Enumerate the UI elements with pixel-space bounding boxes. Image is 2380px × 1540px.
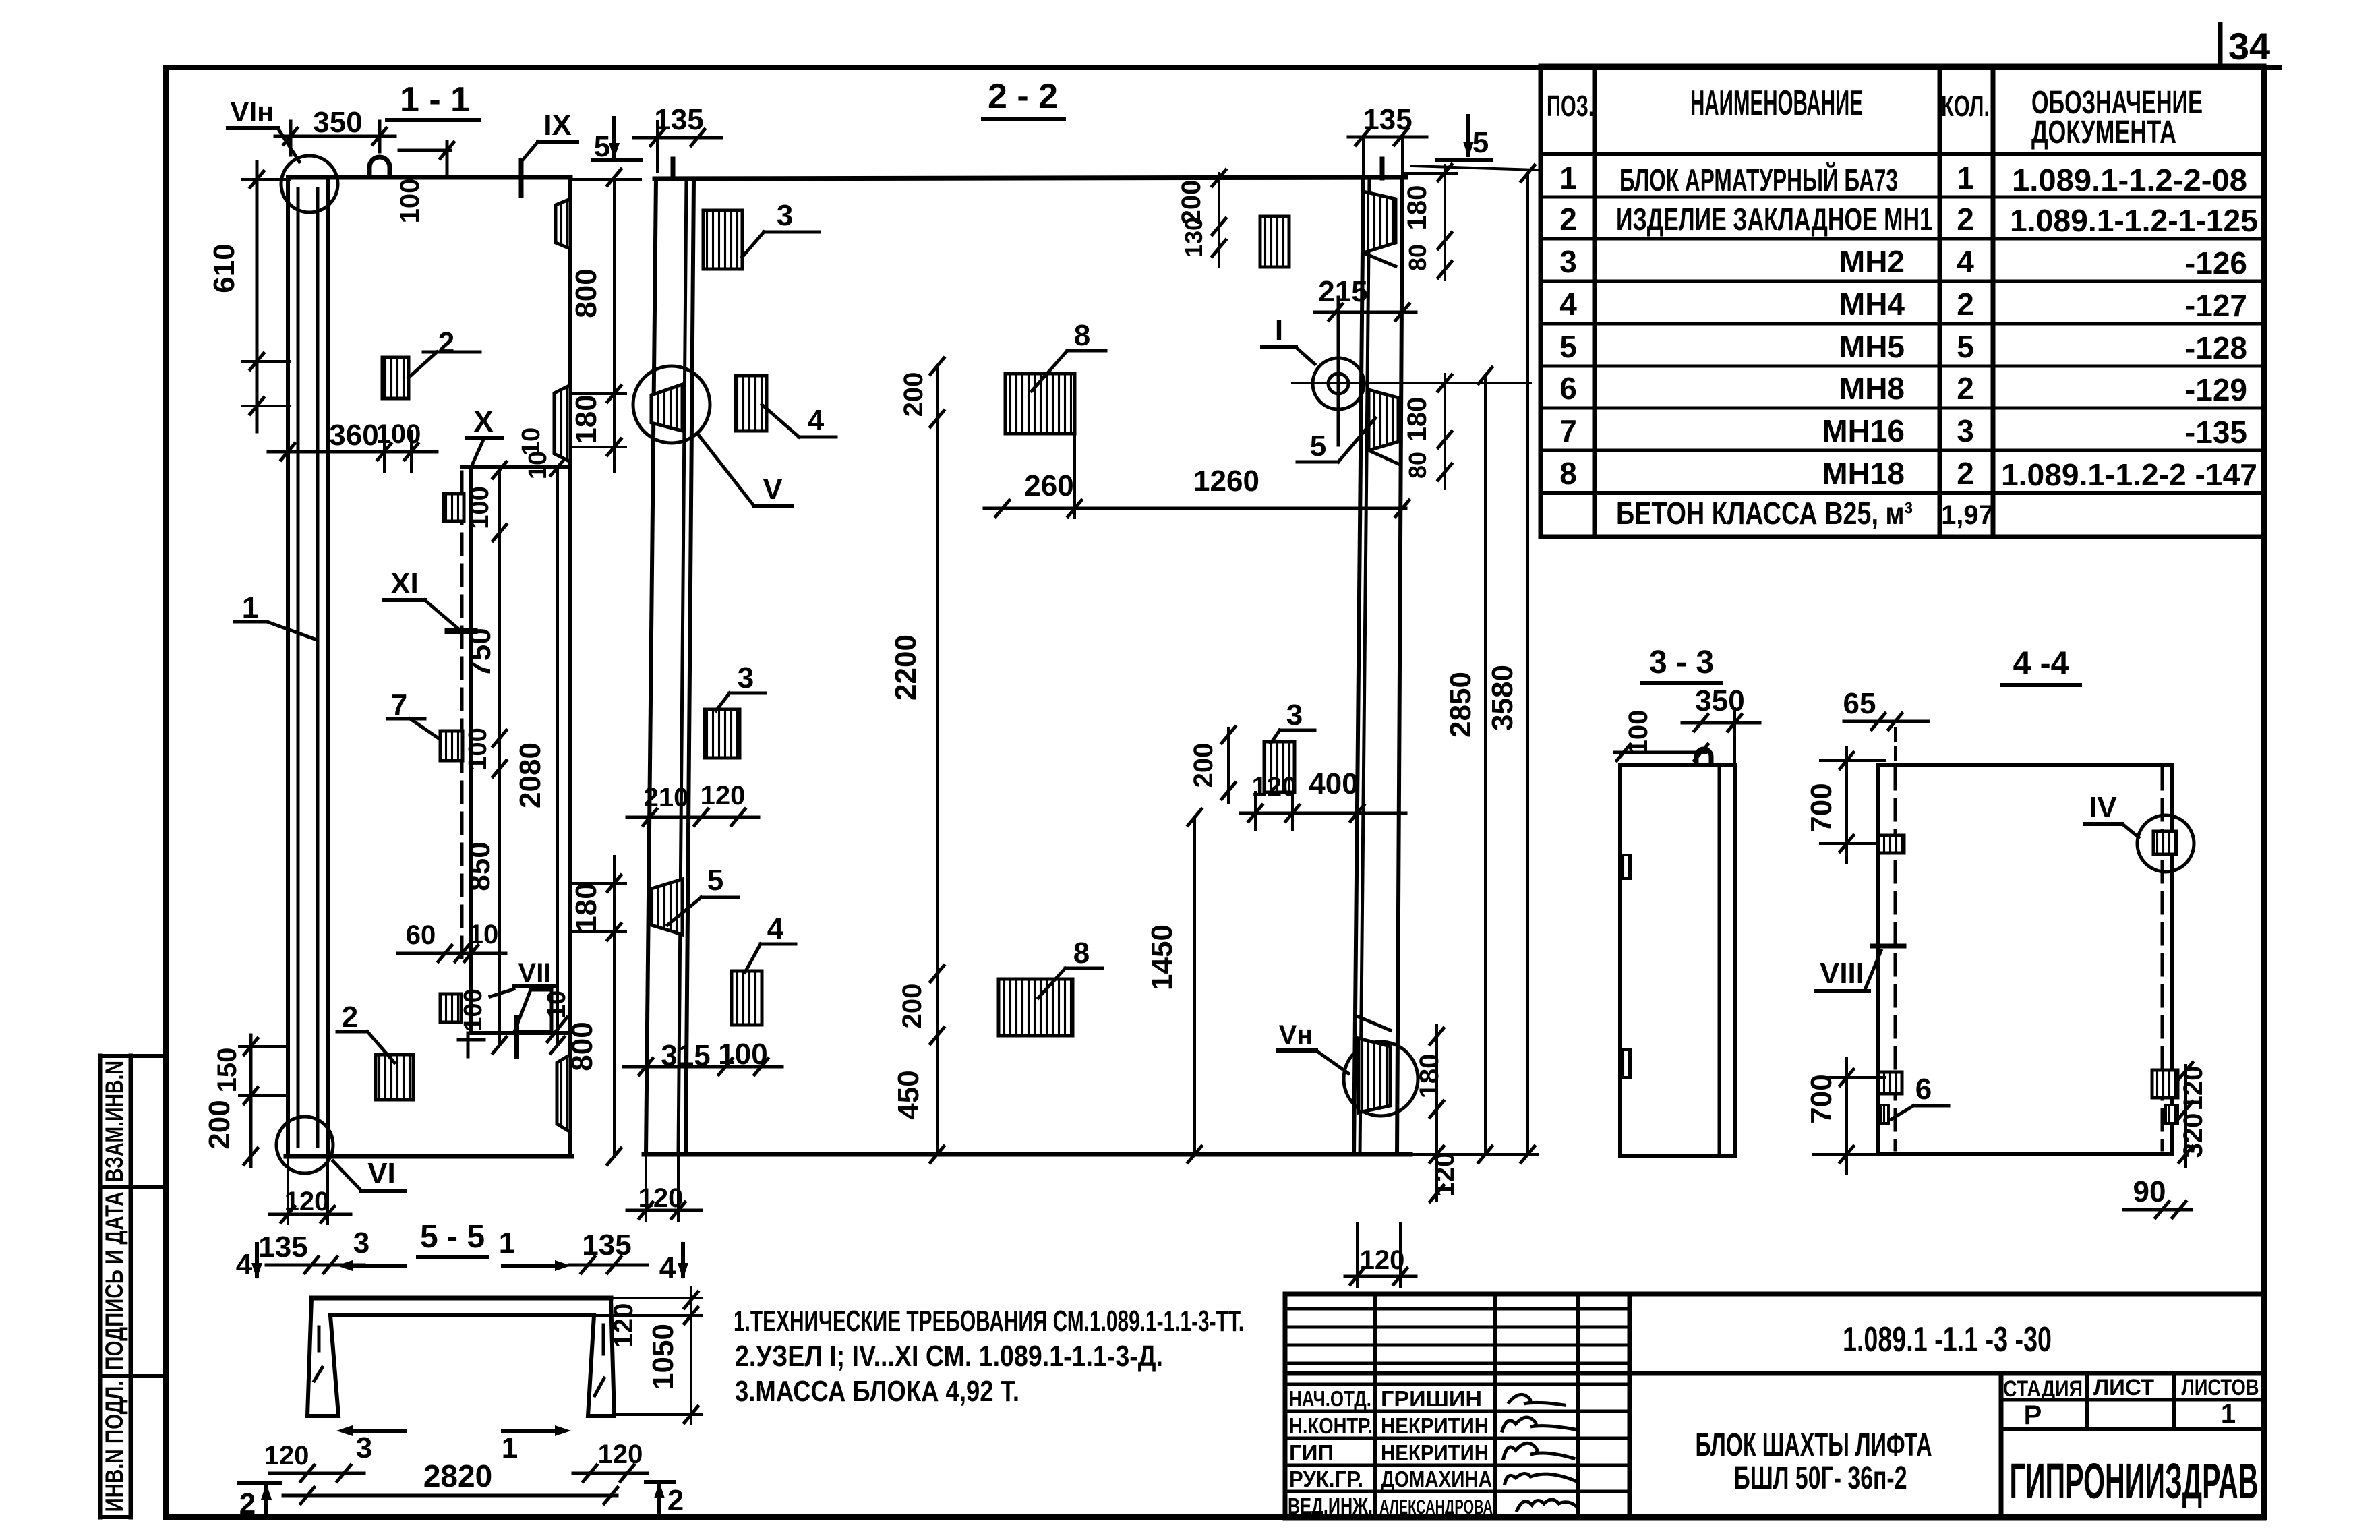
svg-text:350: 350 <box>313 106 362 139</box>
svg-text:210: 210 <box>644 783 689 812</box>
svg-text:1: 1 <box>242 591 258 624</box>
svg-text:БЕТОН КЛАССА В25, м³: БЕТОН КЛАССА В25, м³ <box>1616 496 1913 531</box>
detail circle VI <box>276 1117 333 1173</box>
label XI <box>390 567 419 600</box>
svg-text:3: 3 <box>356 1431 372 1464</box>
svg-text:34: 34 <box>2228 25 2270 67</box>
svg-text:2: 2 <box>239 1487 256 1520</box>
page number tick <box>2218 24 2223 67</box>
dashed lines 4-4 <box>1894 769 1897 1150</box>
svg-text:СТАДИЯ: СТАДИЯ <box>2003 1376 2083 1402</box>
svg-text:1450: 1450 <box>1146 924 1179 990</box>
dim 120 bottom left wall <box>638 1183 684 1213</box>
plates on left dashed line <box>1878 835 1904 853</box>
svg-text:ГИПРОНИИЗДРАВ: ГИПРОНИИЗДРАВ <box>2010 1453 2259 1509</box>
svg-text:100: 100 <box>395 179 425 224</box>
svg-text:1: 1 <box>1957 160 1974 196</box>
dim 200 near plate 3 lower right <box>1189 743 1218 788</box>
svg-text:3: 3 <box>738 661 754 694</box>
dims 315 100 bottom left <box>661 1038 767 1072</box>
svg-text:АЛЕКСАНДРОВА: АЛЕКСАНДРОВА <box>1379 1496 1493 1518</box>
svg-text:180: 180 <box>570 883 603 932</box>
svg-text:100: 100 <box>464 728 492 770</box>
dim 135 top right <box>1363 103 1412 136</box>
cavity left wall <box>469 467 473 1033</box>
svg-text:6: 6 <box>1559 371 1577 406</box>
svg-text:2.УЗЕЛ I; IV...XI СМ. 1.089.1-: 2.УЗЕЛ I; IV...XI СМ. 1.089.1-1.1-3-Д. <box>735 1340 1163 1373</box>
small plate near cavity bottom <box>440 994 461 1022</box>
svg-text:700: 700 <box>1805 1074 1838 1123</box>
svg-text:5 - 5: 5 - 5 <box>420 1219 485 1255</box>
svg-text:1260: 1260 <box>1193 465 1259 498</box>
svg-text:4: 4 <box>1957 244 1974 279</box>
label VIII <box>1820 957 1864 990</box>
svg-text:VIн: VIн <box>230 96 274 127</box>
svg-text:610: 610 <box>208 243 241 293</box>
plate 8 upper + label <box>1005 374 1075 434</box>
svg-text:4: 4 <box>659 1251 676 1284</box>
label VII + threshold <box>518 958 552 988</box>
dim 1450 <box>1146 924 1179 990</box>
svg-text:2: 2 <box>1957 202 1974 237</box>
dim 65 <box>1843 687 1876 720</box>
section mark 5 down <box>594 130 610 163</box>
svg-text:180: 180 <box>1402 397 1432 442</box>
svg-text:2850: 2850 <box>1444 672 1477 738</box>
label X <box>473 405 493 438</box>
dim 450 lower <box>892 1070 925 1119</box>
svg-text:VIII: VIII <box>1820 957 1864 990</box>
svg-text:2: 2 <box>438 326 454 359</box>
svg-text:XI: XI <box>390 567 419 600</box>
cut arrows 3 and 1 top <box>353 1264 405 1268</box>
dim 150 200 left bottom <box>249 1035 253 1166</box>
svg-text:МН16: МН16 <box>1822 413 1905 448</box>
svg-text:100: 100 <box>466 486 494 529</box>
svg-text:IX: IX <box>543 109 572 142</box>
svg-text:Vн: Vн <box>1279 1020 1313 1050</box>
section 4-4 view <box>1805 646 2208 1218</box>
svg-text:10: 10 <box>469 920 499 949</box>
plate 3 top left + label <box>703 210 742 269</box>
svg-text:65: 65 <box>1843 687 1876 720</box>
channel top flange <box>311 1296 611 1301</box>
svg-text:80: 80 <box>1404 452 1431 479</box>
label V <box>763 473 783 506</box>
svg-text:1: 1 <box>2221 1399 2236 1429</box>
left wall inner line <box>326 177 330 1156</box>
dim 90 <box>2133 1175 2166 1208</box>
svg-text:МН18: МН18 <box>1822 456 1905 491</box>
svg-text:8: 8 <box>1073 937 1090 970</box>
section title 2-2 <box>988 77 1058 116</box>
section 1-1 view <box>203 80 641 1224</box>
svg-text:5: 5 <box>707 864 723 897</box>
svg-text:-126: -126 <box>2185 245 2247 280</box>
svg-text:100: 100 <box>376 419 421 449</box>
svg-text:Н.КОНТР.: Н.КОНТР. <box>1289 1413 1373 1438</box>
svg-text:80: 80 <box>1404 244 1431 271</box>
right wall inner pair <box>1354 177 1363 1154</box>
svg-text:6: 6 <box>1915 1073 1932 1106</box>
svg-text:10: 10 <box>524 451 552 479</box>
svg-text:1.089.1-1.2-1-125: 1.089.1-1.2-1-125 <box>2010 203 2258 238</box>
bottom line <box>644 1152 1410 1157</box>
svg-text:200: 200 <box>897 984 927 1029</box>
cavity bottom <box>471 1031 570 1035</box>
dims 260 1260 <box>1024 465 1259 502</box>
svg-text:200: 200 <box>203 1100 236 1149</box>
svg-text:5: 5 <box>594 130 610 163</box>
svg-text:180: 180 <box>1415 1054 1444 1099</box>
loop end view right <box>1380 159 1385 178</box>
svg-text:120: 120 <box>598 1440 643 1469</box>
svg-text:МН4: МН4 <box>1839 287 1905 322</box>
label IX <box>543 109 572 142</box>
edge marks 3-3 <box>1620 855 1630 879</box>
svg-text:1.089.1-1.2-2-08: 1.089.1-1.2-2-08 <box>2012 162 2247 198</box>
svg-text:НЕКРИТИН: НЕКРИТИН <box>1381 1440 1489 1465</box>
panel bottom line <box>286 1154 572 1159</box>
chain dims 100 750 100 850 <box>463 486 497 891</box>
dim 120 bottom <box>285 1187 330 1216</box>
svg-text:360: 360 <box>329 419 378 452</box>
section title 1-1 <box>400 80 470 119</box>
section 2-2 view <box>624 77 1537 1286</box>
bracket V on left wall <box>651 384 682 431</box>
technical notes <box>734 1305 1244 1408</box>
dims below: 120 3 1 120 <box>264 1431 643 1471</box>
svg-text:Р: Р <box>2024 1400 2042 1430</box>
dim 700 upper <box>1805 783 1838 832</box>
svg-text:2820: 2820 <box>423 1458 492 1493</box>
svg-text:2: 2 <box>1957 287 1974 322</box>
right wall outer <box>1397 177 1402 1154</box>
svg-text:1.089.1-1.2-2 -147: 1.089.1-1.2-2 -147 <box>2001 457 2257 492</box>
svg-text:5: 5 <box>1310 430 1326 463</box>
svg-text:ИНВ.N ПОДЛ.: ИНВ.N ПОДЛ. <box>100 1381 128 1512</box>
svg-text:3: 3 <box>1286 699 1303 732</box>
svg-text:120: 120 <box>609 1303 638 1349</box>
svg-text:320: 320 <box>2178 1113 2208 1158</box>
signatures <box>1502 1394 1576 1510</box>
svg-text:4 -4: 4 -4 <box>2013 646 2069 682</box>
label 6 <box>1915 1073 1932 1106</box>
svg-text:ВЕД.ИНЖ.: ВЕД.ИНЖ. <box>1288 1493 1373 1518</box>
svg-text:150: 150 <box>212 1048 242 1093</box>
svg-text:3: 3 <box>777 199 793 232</box>
detail circle V on left wall <box>633 366 710 443</box>
right bottom plates 4-4 <box>2152 1070 2178 1098</box>
svg-text:130: 130 <box>1180 217 1208 258</box>
svg-text:135: 135 <box>582 1228 631 1262</box>
svg-text:VII: VII <box>518 958 552 988</box>
section marks top: 4 135 3 1 135 4 <box>236 1226 676 1284</box>
svg-text:МН5: МН5 <box>1839 329 1905 364</box>
loop end view left <box>671 159 676 179</box>
svg-text:135: 135 <box>258 1231 307 1264</box>
dims 60 10 <box>406 920 499 950</box>
detail label VIн <box>230 96 274 127</box>
svg-text:ДОМАХИНА: ДОМАХИНА <box>1381 1467 1492 1491</box>
svg-text:ГИП: ГИП <box>1289 1440 1334 1465</box>
dims 80 180 right <box>1402 397 1432 479</box>
bracket 5 on left wall + label <box>651 879 682 935</box>
svg-text:НАЧ.ОТД.: НАЧ.ОТД. <box>1289 1386 1371 1411</box>
dim 2820 <box>423 1458 492 1493</box>
svg-text:КОЛ.: КОЛ. <box>1941 90 1990 123</box>
svg-text:МН8: МН8 <box>1839 371 1905 406</box>
svg-text:450: 450 <box>892 1070 925 1119</box>
plate 4 lower left + label <box>732 971 762 1025</box>
svg-text:7: 7 <box>391 688 407 721</box>
svg-text:2080: 2080 <box>514 742 547 808</box>
panel outline 3-3 <box>1620 765 1735 1156</box>
bracket top right <box>556 199 570 249</box>
svg-text:2200: 2200 <box>889 634 922 701</box>
right chain dims 800 180 / 180 800 <box>566 268 603 1071</box>
section marks 2 up <box>239 1484 684 1520</box>
dim 200 upper middle <box>899 372 928 417</box>
svg-text:4: 4 <box>1559 287 1577 322</box>
dims 180 120 bottom right <box>1415 1054 1460 1197</box>
svg-text:3: 3 <box>353 1226 369 1260</box>
svg-text:90: 90 <box>2133 1175 2166 1208</box>
detail circle VIн <box>281 156 338 212</box>
svg-text:1.089.1 -1.1 -3 -30: 1.089.1 -1.1 -3 -30 <box>1843 1320 2052 1359</box>
svg-text:ДОКУМЕНТА: ДОКУМЕНТА <box>2031 115 2176 150</box>
svg-text:VI: VI <box>367 1157 396 1190</box>
svg-text:2: 2 <box>1559 202 1577 237</box>
dim 200 lower <box>897 984 927 1029</box>
svg-text:60: 60 <box>406 920 436 950</box>
svg-text:V: V <box>763 473 783 506</box>
svg-text:НАИМЕНОВАНИЕ: НАИМЕНОВАНИЕ <box>1690 84 1863 123</box>
left wall outer line <box>286 177 290 1156</box>
svg-text:120: 120 <box>701 781 746 810</box>
plate 8 lower + label <box>999 979 1073 1036</box>
section mark 5 down right <box>1472 126 1489 159</box>
dim 2080 <box>514 742 547 808</box>
dims 210 120 <box>644 781 746 812</box>
svg-text:8: 8 <box>1559 456 1577 491</box>
small plate near cavity top <box>444 494 464 521</box>
dim 700 lower <box>1805 1074 1838 1123</box>
dim 100 <box>1624 710 1653 755</box>
lifting loop <box>369 157 390 177</box>
svg-text:850: 850 <box>463 841 496 891</box>
svg-text:3: 3 <box>1957 413 1974 448</box>
svg-text:БШЛ 50Г- 36п-2: БШЛ 50Г- 36п-2 <box>1734 1460 1907 1496</box>
svg-text:X: X <box>473 405 493 438</box>
plate 3 top right <box>1260 216 1289 267</box>
svg-text:120: 120 <box>264 1441 309 1471</box>
svg-text:1,97: 1,97 <box>1941 500 1994 530</box>
dim 2850 <box>1444 672 1477 738</box>
svg-text:4: 4 <box>808 404 825 437</box>
dim 2200 <box>889 634 922 701</box>
svg-text:1: 1 <box>499 1226 515 1260</box>
svg-text:3 - 3: 3 - 3 <box>1649 645 1714 680</box>
svg-text:-127: -127 <box>2185 288 2247 323</box>
svg-text:200: 200 <box>899 372 928 417</box>
title block <box>1285 1294 2264 1518</box>
dims 120 400 <box>1252 767 1359 802</box>
svg-text:ЛИСТ: ЛИСТ <box>2093 1375 2154 1400</box>
dim 120 bottom right wall <box>1360 1245 1405 1275</box>
svg-text:1: 1 <box>502 1431 518 1464</box>
dim 10 sideways <box>517 427 545 456</box>
svg-text:-129: -129 <box>2185 372 2247 407</box>
lifting loop 3-3 <box>1696 749 1711 765</box>
label IV + circle <box>2089 791 2117 824</box>
plate 4 upper + label <box>736 376 767 431</box>
svg-text:8: 8 <box>1074 319 1090 352</box>
svg-text:НЕКРИТИН: НЕКРИТИН <box>1381 1413 1489 1438</box>
svg-text:5: 5 <box>1559 329 1577 364</box>
panel outline 4-4 <box>1878 765 2172 1154</box>
svg-text:800: 800 <box>570 268 603 318</box>
svg-text:1050: 1050 <box>647 1324 680 1390</box>
top line <box>655 177 1406 179</box>
plate 3 lower right + label <box>1264 742 1295 792</box>
svg-text:5: 5 <box>1957 329 1974 364</box>
svg-text:БЛОК ШАХТЫ ЛИФТА: БЛОК ШАХТЫ ЛИФТА <box>1696 1427 1932 1463</box>
dim 3580 <box>1486 665 1519 731</box>
svg-text:ИЗДЕЛИЕ ЗАКЛАДНОЕ МН1: ИЗДЕЛИЕ ЗАКЛАДНОЕ МН1 <box>1616 202 1932 237</box>
svg-text:ПОДПИСЬ И ДАТА: ПОДПИСЬ И ДАТА <box>100 1192 128 1371</box>
page number 34 <box>2228 25 2270 67</box>
left margin stamp column <box>100 1056 166 1517</box>
svg-text:-128: -128 <box>2185 330 2247 365</box>
dim 350 <box>1695 684 1744 717</box>
svg-text:ГРИШИН: ГРИШИН <box>1381 1386 1482 1411</box>
svg-text:7: 7 <box>1559 413 1577 448</box>
left wall outer <box>646 179 656 1154</box>
left wall inner pair <box>678 179 686 1154</box>
bracket bottom right <box>557 1055 570 1132</box>
svg-text:200: 200 <box>1189 743 1218 788</box>
rebar line right <box>316 189 320 1146</box>
bracket mid right <box>554 385 570 462</box>
svg-text:700: 700 <box>1805 783 1838 832</box>
dims 200 130 top right <box>1177 180 1208 258</box>
dim 100 top (loop offset) <box>395 179 425 224</box>
dims 180 80 top right <box>1402 185 1432 271</box>
specification table <box>1541 66 2264 537</box>
svg-text:2: 2 <box>1957 371 1974 406</box>
rebar line left <box>297 189 300 1146</box>
cavity top <box>462 465 570 469</box>
svg-text:1 - 1: 1 - 1 <box>400 80 470 119</box>
svg-text:120: 120 <box>1252 772 1297 802</box>
dim 135 top left <box>654 103 703 136</box>
svg-text:2: 2 <box>1957 456 1974 491</box>
dims 120 1050 right <box>609 1303 680 1390</box>
left leg <box>307 1298 338 1416</box>
svg-text:4: 4 <box>767 912 784 945</box>
label 7 + embedded plate <box>391 688 407 721</box>
label 1 (panel) <box>242 591 258 624</box>
svg-text:120: 120 <box>1360 1245 1405 1275</box>
svg-text:ПОЗ.: ПОЗ. <box>1547 90 1594 123</box>
svg-text:-135: -135 <box>2185 415 2247 450</box>
section 5-5 view <box>236 1219 701 1520</box>
svg-text:1.ТЕХНИЧЕСКИЕ ТРЕБОВАНИЯ СМ.1.: 1.ТЕХНИЧЕСКИЕ ТРЕБОВАНИЯ СМ.1.089.1-1.1-… <box>734 1305 1244 1338</box>
svg-text:2 - 2: 2 - 2 <box>988 77 1058 116</box>
svg-text:3580: 3580 <box>1486 665 1519 731</box>
section 3-3 view <box>1615 645 1760 1156</box>
dim 215 + detail I <box>1318 275 1367 308</box>
svg-text:1: 1 <box>1559 160 1577 196</box>
dim 350 <box>313 106 362 139</box>
svg-text:3: 3 <box>1559 244 1577 279</box>
svg-text:2: 2 <box>667 1484 684 1517</box>
detail circle Vн bottom right <box>1344 1042 1418 1116</box>
svg-text:400: 400 <box>1309 767 1358 800</box>
svg-text:5: 5 <box>1472 126 1489 159</box>
svg-text:350: 350 <box>1695 684 1744 717</box>
panel right edge <box>568 177 572 1156</box>
svg-text:ВЗАМ.ИНВ.N: ВЗАМ.ИНВ.N <box>100 1061 128 1182</box>
svg-text:180: 180 <box>570 394 603 444</box>
svg-text:180: 180 <box>1402 185 1432 231</box>
svg-text:IV: IV <box>2089 791 2117 824</box>
leg notches <box>318 1327 321 1351</box>
svg-text:БЛОК АРМАТУРНЫЙ БА73: БЛОК АРМАТУРНЫЙ БА73 <box>1619 162 1898 198</box>
brackets on right wall top <box>1363 191 1396 253</box>
right leg <box>588 1298 614 1416</box>
svg-text:I: I <box>1275 314 1283 347</box>
svg-text:100: 100 <box>459 988 487 1031</box>
embedded plate 2 upper <box>382 357 409 398</box>
svg-text:ЛИСТОВ: ЛИСТОВ <box>2182 1375 2259 1400</box>
dim 360 100 <box>329 419 421 452</box>
embedded plate 2 lower <box>376 1055 413 1100</box>
bracket mid right wall + label 5 <box>1369 390 1398 450</box>
cavity dashed line <box>460 472 464 964</box>
dims 120 320 right <box>2178 1066 2208 1158</box>
svg-text:750: 750 <box>464 628 497 677</box>
dim 610 / 150 left <box>203 243 242 1149</box>
svg-text:2: 2 <box>342 1001 358 1034</box>
svg-text:3.МАССА БЛОКА 4,92 Т.: 3.МАССА БЛОКА 4,92 Т. <box>735 1375 1019 1408</box>
panel top line <box>291 175 570 180</box>
svg-text:260: 260 <box>1024 469 1073 502</box>
svg-text:МН2: МН2 <box>1839 244 1905 279</box>
svg-text:10: 10 <box>543 990 571 1019</box>
svg-text:РУК.ГР.: РУК.ГР. <box>1289 1467 1363 1491</box>
plate 3 lower left + label <box>705 709 740 758</box>
svg-text:4: 4 <box>236 1248 253 1281</box>
